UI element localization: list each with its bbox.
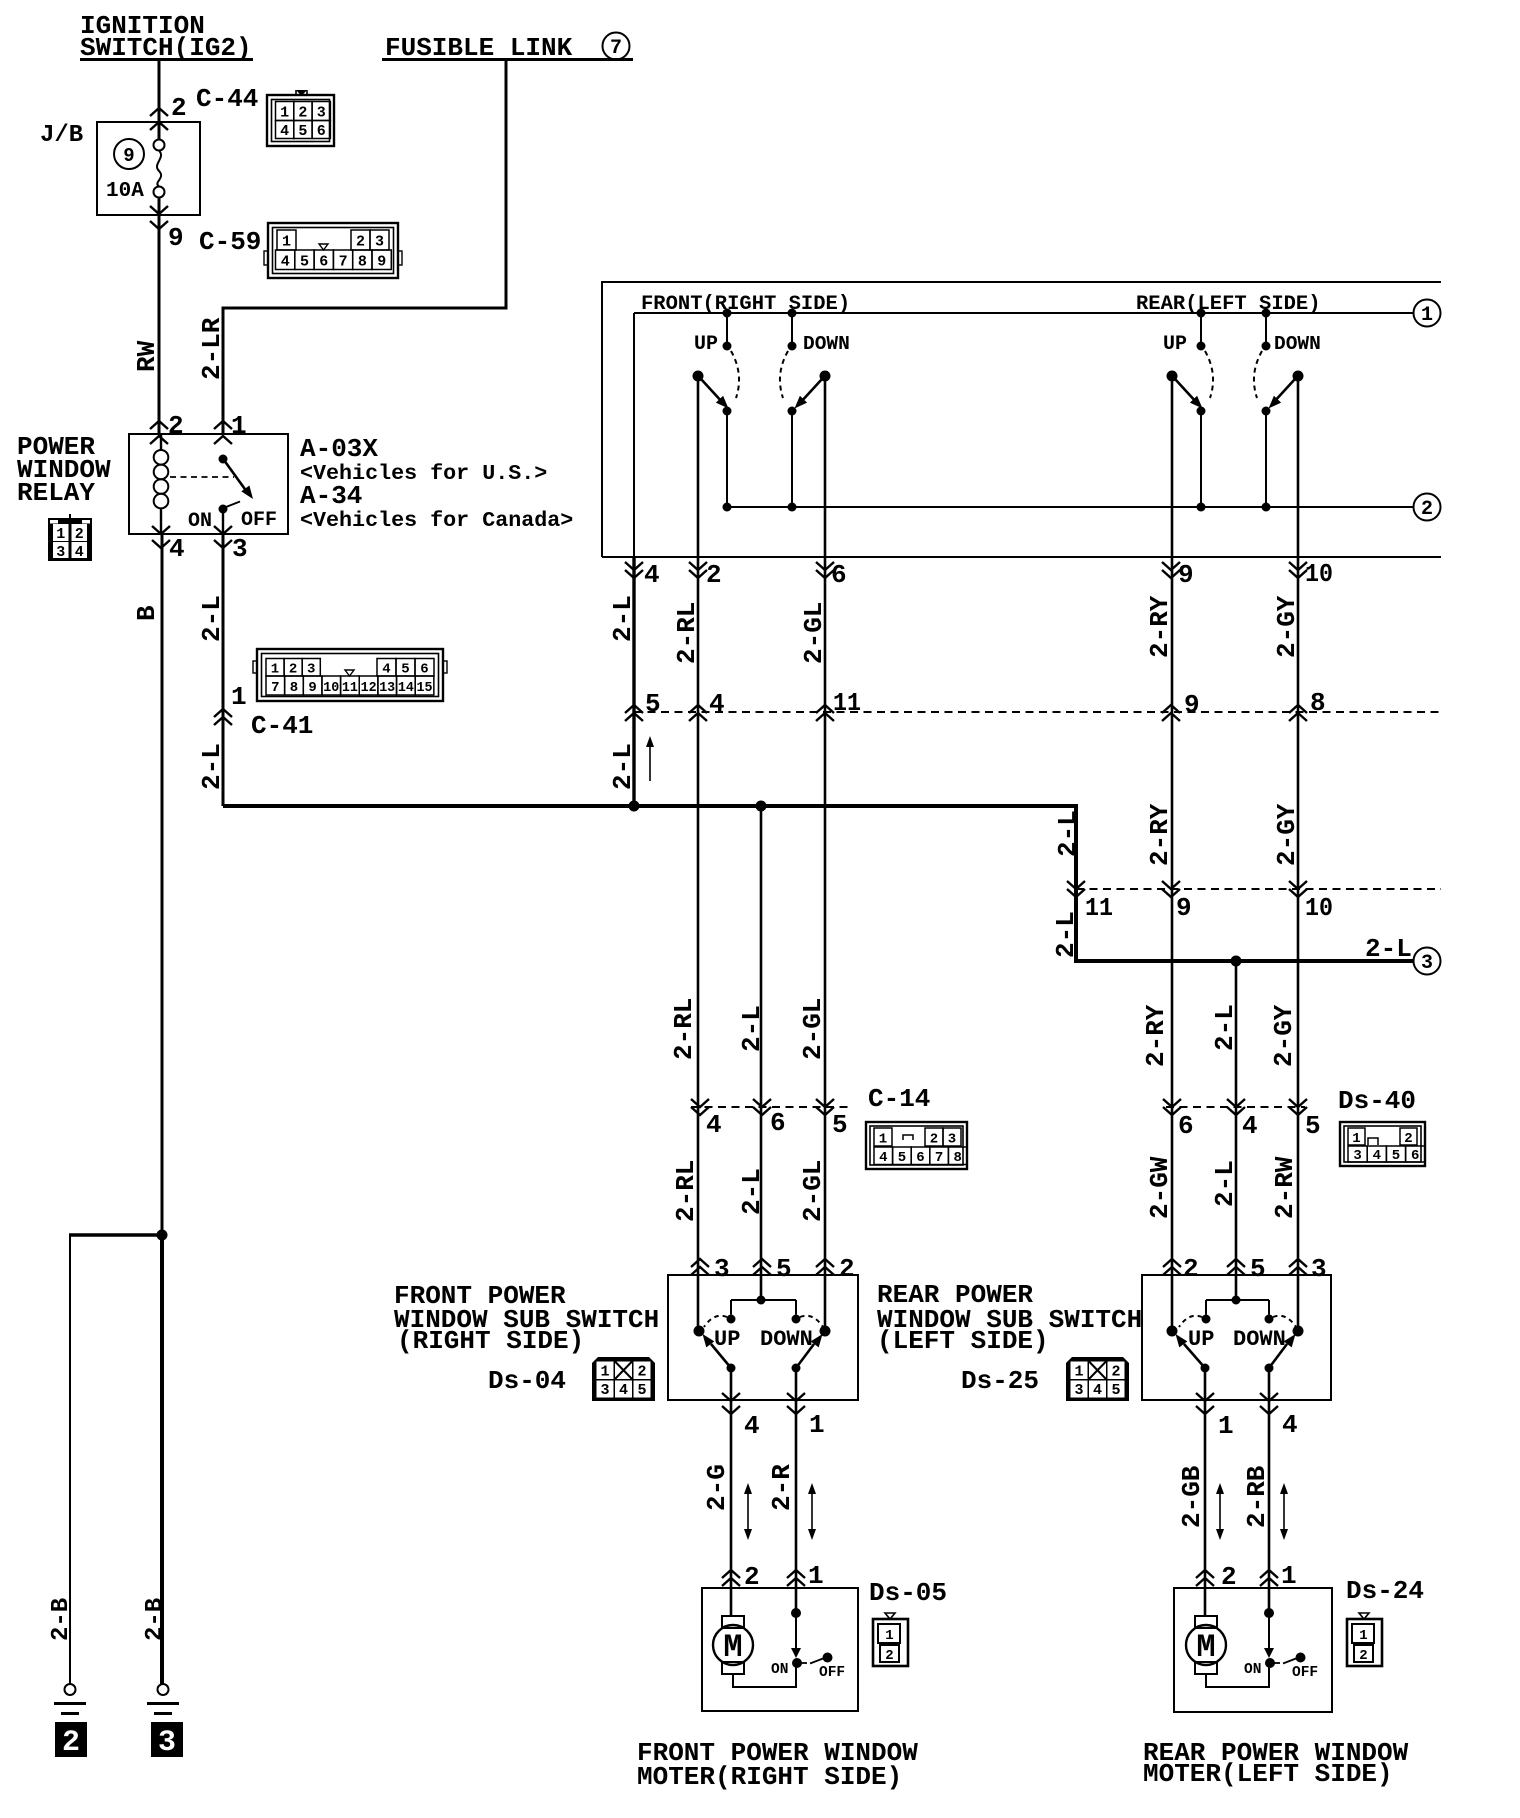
rear sub pin 1 chevron bbox=[1196, 1393, 1214, 1414]
front sub center contacts bbox=[727, 1296, 801, 1324]
rear sub pin 4 label bbox=[1282, 1410, 1298, 1440]
svg-text:9: 9 bbox=[1178, 560, 1194, 590]
wire label 2-GY lower bbox=[1269, 1004, 1299, 1067]
node circle 2 bbox=[1414, 494, 1441, 522]
wire bus line 2 bbox=[727, 506, 1413, 508]
svg-text:4: 4 bbox=[169, 534, 185, 564]
svg-text:5: 5 bbox=[776, 1254, 792, 1284]
rear motor junction bbox=[1264, 1608, 1274, 1618]
svg-text:2: 2 bbox=[1359, 1648, 1367, 1664]
dashed3 front pin 4 chevron bbox=[691, 1099, 709, 1115]
front sub pin 4 chevron bbox=[722, 1393, 740, 1414]
front sub down arm bbox=[796, 1334, 823, 1368]
wire label 2-RL lower bbox=[671, 1160, 701, 1222]
svg-text:2-GL: 2-GL bbox=[798, 1160, 828, 1222]
svg-text:1: 1 bbox=[1074, 1364, 1083, 1381]
connector C-14 label bbox=[868, 1084, 930, 1114]
svg-text:UP: UP bbox=[1188, 1327, 1214, 1352]
svg-text:12: 12 bbox=[361, 680, 377, 696]
svg-text:1: 1 bbox=[231, 682, 247, 712]
svg-text:6: 6 bbox=[770, 1108, 786, 1138]
svg-text:(LEFT SIDE): (LEFT SIDE) bbox=[877, 1326, 1049, 1356]
dashed3 rear pin 4 label bbox=[1242, 1111, 1258, 1141]
svg-text:2: 2 bbox=[289, 662, 297, 678]
rear sub UP DOWN labels bbox=[1188, 1327, 1286, 1352]
wire B to ground bbox=[161, 534, 164, 1684]
main pin 9 chevron bbox=[1162, 562, 1180, 578]
svg-text:Ds-05: Ds-05 bbox=[869, 1578, 947, 1608]
ground symbol left bbox=[54, 1684, 86, 1714]
wire label 2-RY lower bbox=[1141, 1004, 1171, 1067]
wire label B bbox=[132, 605, 162, 621]
svg-text:8: 8 bbox=[1310, 688, 1326, 718]
dashed1 pin 9 label bbox=[1184, 690, 1200, 720]
wire 2-G front sub to motor bbox=[730, 1368, 733, 1617]
rear motor pin 1 chevron bbox=[1260, 1570, 1278, 1586]
svg-text:2-L: 2-L bbox=[1051, 911, 1081, 958]
svg-text:2-B: 2-B bbox=[48, 1598, 75, 1641]
wire fuse stubs bbox=[158, 122, 161, 215]
svg-text:4: 4 bbox=[879, 1150, 887, 1166]
svg-text:RELAY: RELAY bbox=[17, 478, 95, 508]
wire 2-L relay to bus bbox=[222, 534, 225, 806]
rear motor caption bbox=[1143, 1738, 1409, 1789]
svg-text:UP: UP bbox=[1163, 333, 1187, 356]
dashed2 pin 10 chevron bbox=[1289, 881, 1307, 897]
svg-text:13: 13 bbox=[379, 680, 395, 696]
svg-text:3: 3 bbox=[714, 1254, 730, 1284]
front motor pin 2 label bbox=[744, 1562, 760, 1592]
svg-text:J/B: J/B bbox=[40, 122, 83, 149]
front motor caption bbox=[637, 1738, 918, 1792]
rear sub up dashed arc bbox=[1179, 1316, 1202, 1327]
wire label 2-G bbox=[702, 1464, 732, 1511]
main pin 4 label bbox=[644, 560, 660, 590]
rear up switch arm bbox=[1175, 379, 1203, 409]
svg-text:2-B: 2-B bbox=[142, 1598, 169, 1641]
wire pin 6 2-GL bbox=[824, 376, 827, 1331]
svg-text:C-41: C-41 bbox=[251, 711, 313, 741]
svg-text:DOWN: DOWN bbox=[1233, 1327, 1286, 1352]
connector Ds-04 label bbox=[488, 1366, 566, 1396]
ground reference 2 bbox=[55, 1722, 87, 1760]
connector Ds-25 label bbox=[961, 1366, 1039, 1396]
rear sub center contacts bbox=[1202, 1296, 1274, 1324]
pin 9 label bbox=[168, 223, 184, 253]
rear sub pin 2 chevron bbox=[1163, 1259, 1181, 1275]
svg-text:5: 5 bbox=[401, 662, 409, 678]
wire label 2-L upper bbox=[197, 595, 227, 642]
dashed1 pin 9 chevron bbox=[1162, 705, 1180, 721]
rear motor pin 1 label bbox=[1281, 1561, 1297, 1591]
svg-text:4: 4 bbox=[709, 689, 725, 719]
front down switch arm bbox=[795, 379, 823, 409]
rear up switch dashed travel arc bbox=[1205, 351, 1213, 398]
rear sub pin 4 chevron bbox=[1260, 1393, 1278, 1414]
front sub lower contacts bbox=[727, 1364, 801, 1373]
rear motor switch wire bbox=[1268, 1613, 1270, 1650]
svg-text:4: 4 bbox=[1373, 1148, 1381, 1164]
rear down lower contact to bus 2 bbox=[1262, 407, 1271, 512]
front motor switch wire bbox=[795, 1613, 797, 1650]
wire label 2-RL middle bbox=[669, 998, 699, 1060]
connector Ds-05 label bbox=[869, 1578, 947, 1608]
svg-text:2: 2 bbox=[168, 411, 184, 441]
rear down switch dashed travel arc bbox=[1254, 351, 1262, 398]
svg-text:1: 1 bbox=[282, 234, 291, 251]
rear sub up pivot bbox=[1167, 1326, 1178, 1337]
svg-text:C-14: C-14 bbox=[868, 1084, 930, 1114]
svg-text:5: 5 bbox=[1250, 1254, 1266, 1284]
rear motor pin 2 label bbox=[1221, 1562, 1237, 1592]
rear up switch pivot bbox=[1167, 371, 1178, 382]
svg-text:2-L: 2-L bbox=[197, 595, 227, 642]
svg-text:5: 5 bbox=[1392, 1148, 1400, 1164]
wire label 2-L with up arrow bbox=[608, 736, 654, 790]
node FUSIBLE LINK label bbox=[382, 33, 633, 63]
dashed3 rear pin 4 chevron bbox=[1227, 1099, 1245, 1115]
svg-text:Ds-40: Ds-40 bbox=[1338, 1086, 1416, 1116]
svg-text:15: 15 bbox=[417, 680, 433, 696]
svg-text:2-L: 2-L bbox=[608, 743, 638, 790]
front down switch pivot bbox=[820, 371, 831, 382]
svg-text:2-L: 2-L bbox=[1210, 1160, 1240, 1207]
pin 2 label bbox=[171, 93, 187, 123]
wire label 2-L at circle 3 bbox=[1365, 934, 1412, 964]
svg-text:2-GW: 2-GW bbox=[1145, 1156, 1175, 1219]
svg-text:1: 1 bbox=[600, 1364, 609, 1381]
svg-text:1: 1 bbox=[809, 1410, 825, 1440]
front up switch pivot bbox=[693, 371, 704, 382]
relay pin 3 label bbox=[232, 534, 248, 564]
front sub pin 5 chevron bbox=[753, 1259, 771, 1275]
rear up label bbox=[1163, 333, 1187, 356]
svg-text:2-RL: 2-RL bbox=[671, 1160, 701, 1222]
wire label 2-GL middle bbox=[798, 998, 828, 1060]
wire branch to ground 2 bbox=[69, 1235, 162, 1684]
connector C-44 label bbox=[196, 84, 258, 114]
relay connector icon 1 2 3 4 bbox=[48, 514, 92, 561]
svg-text:Ds-24: Ds-24 bbox=[1346, 1576, 1424, 1606]
connector Ds-40 label bbox=[1338, 1086, 1416, 1116]
junction B wire branch bbox=[157, 1230, 168, 1241]
dashed3 rear pin 6 chevron bbox=[1163, 1099, 1181, 1115]
wire 2-R front sub to motor bbox=[795, 1368, 798, 1613]
connector Ds-05 pin diagram bbox=[873, 1613, 908, 1666]
svg-text:2: 2 bbox=[356, 234, 365, 251]
svg-text:5: 5 bbox=[300, 254, 309, 271]
svg-text:OFF: OFF bbox=[241, 509, 277, 532]
svg-text:9: 9 bbox=[308, 680, 316, 696]
node circle 3 bbox=[1414, 948, 1441, 976]
svg-text:10: 10 bbox=[1305, 559, 1333, 589]
front down label bbox=[803, 333, 850, 355]
dashed1 pin 8 chevron bbox=[1289, 705, 1307, 721]
svg-text:5: 5 bbox=[832, 1110, 848, 1140]
svg-text:A-34: A-34 bbox=[300, 481, 362, 511]
front motor ON OFF labels bbox=[771, 1662, 845, 1681]
main pin 9 label bbox=[1178, 560, 1194, 590]
svg-text:2-G: 2-G bbox=[702, 1464, 732, 1511]
dashed3 rear pin 6 label bbox=[1178, 1111, 1194, 1141]
svg-text:Ds-25: Ds-25 bbox=[961, 1366, 1039, 1396]
wire RW bbox=[158, 215, 161, 434]
dashed3 front pin 4 label bbox=[706, 1110, 722, 1140]
relay pin 1 chevron bbox=[214, 421, 232, 444]
node FRONT RIGHT SIDE label bbox=[641, 293, 850, 316]
rear sub down pivot bbox=[1293, 1326, 1304, 1337]
svg-text:9: 9 bbox=[1184, 690, 1200, 720]
svg-text:OFF: OFF bbox=[1292, 1665, 1318, 1681]
wire label 2-L lower bbox=[197, 743, 227, 790]
relay pin 2 label bbox=[168, 411, 184, 441]
svg-text:ON: ON bbox=[1244, 1662, 1261, 1678]
main pin 6 chevron bbox=[816, 562, 834, 578]
relay pin 2 chevron bbox=[150, 421, 168, 444]
rear sub pin 1 label bbox=[1218, 1411, 1234, 1441]
svg-text:3: 3 bbox=[232, 534, 248, 564]
svg-text:2-RL: 2-RL bbox=[672, 602, 702, 664]
svg-text:C-44: C-44 bbox=[196, 84, 258, 114]
svg-text:OFF: OFF bbox=[819, 1665, 845, 1681]
svg-text:8: 8 bbox=[953, 1150, 961, 1166]
svg-text:2: 2 bbox=[1421, 498, 1433, 521]
rear down label bbox=[1274, 333, 1321, 355]
wire label 2-RW bbox=[1270, 1156, 1300, 1219]
node REAR LEFT SIDE label bbox=[1136, 293, 1321, 316]
svg-text:3: 3 bbox=[158, 1726, 176, 1760]
svg-text:MOTER(RIGHT SIDE): MOTER(RIGHT SIDE) bbox=[637, 1762, 902, 1792]
svg-text:3: 3 bbox=[1074, 1382, 1083, 1399]
wire label 2-RL upper bbox=[672, 602, 702, 664]
relay ON OFF labels bbox=[188, 509, 277, 533]
svg-text:14: 14 bbox=[398, 680, 414, 696]
wire pin 10 2-GY 2-RW bbox=[1297, 376, 1300, 1331]
svg-text:2-L: 2-L bbox=[1053, 810, 1083, 857]
rear motor ON OFF switch bbox=[1265, 1653, 1306, 1669]
wire ignition switch to J/B bbox=[158, 61, 161, 122]
pin 1 chevron C-41 bbox=[214, 709, 232, 725]
front sub down dashed arc bbox=[800, 1316, 823, 1327]
svg-text:1: 1 bbox=[885, 1628, 893, 1644]
front sub pin 2 label bbox=[839, 1254, 855, 1284]
svg-text:11: 11 bbox=[1085, 893, 1113, 923]
wire label 2-L pin4 bbox=[608, 595, 638, 642]
fuse number circle 9 bbox=[114, 139, 144, 169]
relay coil bbox=[154, 434, 169, 534]
svg-text:3: 3 bbox=[307, 662, 315, 678]
wire label 2-L rear branch lower bbox=[1210, 1160, 1240, 1207]
wire 2-L front branch bbox=[760, 806, 763, 1300]
svg-text:7: 7 bbox=[610, 37, 622, 60]
svg-text:7: 7 bbox=[339, 254, 348, 271]
svg-text:2: 2 bbox=[298, 105, 307, 122]
svg-text:2-LR: 2-LR bbox=[197, 317, 227, 380]
svg-text:5: 5 bbox=[637, 1382, 646, 1399]
front down lower contact to bus 2 bbox=[788, 407, 797, 512]
front up switch dashed travel arc bbox=[731, 351, 739, 398]
svg-text:8: 8 bbox=[358, 254, 367, 271]
svg-text:4: 4 bbox=[619, 1382, 628, 1399]
svg-text:3: 3 bbox=[948, 1132, 956, 1148]
main pin 2 chevron bbox=[689, 562, 707, 578]
wire label 2-GY upper bbox=[1272, 595, 1302, 658]
front motor ON OFF switch bbox=[792, 1653, 833, 1669]
front up switch fixed contact bbox=[723, 309, 732, 351]
main pin 2 label bbox=[706, 560, 722, 590]
wire pin 9 2-RY 2-GW bbox=[1171, 376, 1174, 1331]
front up label bbox=[694, 333, 718, 356]
front sub pin 1 chevron bbox=[787, 1393, 805, 1414]
dashed3 rear pin 5 label bbox=[1305, 1111, 1321, 1141]
svg-text:1: 1 bbox=[1421, 304, 1433, 327]
svg-text:10: 10 bbox=[323, 680, 339, 696]
dashed1 pin 11 chevron bbox=[816, 705, 834, 721]
wire label 2-B left bbox=[48, 1598, 75, 1641]
svg-text:4: 4 bbox=[280, 123, 289, 140]
wire label 2-L bus leg upper bbox=[1053, 810, 1083, 857]
wire 2-L rear branch bbox=[1235, 961, 1238, 1300]
svg-text:2-L: 2-L bbox=[737, 1005, 767, 1052]
ground reference 3 bbox=[151, 1722, 183, 1760]
svg-text:10A: 10A bbox=[106, 180, 144, 203]
svg-text:Ds-04: Ds-04 bbox=[488, 1366, 566, 1396]
front motor pin 1 label bbox=[808, 1561, 824, 1591]
main pin 10 chevron bbox=[1289, 562, 1307, 578]
dashed1 pin 5 chevron bbox=[625, 705, 643, 721]
rear motor pin 2 chevron bbox=[1196, 1570, 1214, 1586]
pin 2 chevron C-44 bbox=[150, 108, 168, 130]
dashed3 rear pin 5 chevron bbox=[1289, 1099, 1307, 1115]
front sub up arm bbox=[703, 1334, 732, 1368]
rear up switch fixed contact bbox=[1197, 309, 1206, 351]
connector Ds-04 pin diagram bbox=[592, 1357, 655, 1401]
svg-text:1: 1 bbox=[1218, 1411, 1234, 1441]
svg-text:1: 1 bbox=[808, 1561, 824, 1591]
rear motor return wire bbox=[1206, 1663, 1269, 1687]
svg-text:2: 2 bbox=[75, 526, 84, 543]
front sub pin 5 label bbox=[776, 1254, 792, 1284]
front power window sub switch box bbox=[668, 1275, 858, 1400]
svg-text:11: 11 bbox=[833, 688, 861, 718]
dashed2 pin 9 chevron bbox=[1162, 881, 1180, 897]
svg-text:<Vehicles for Canada>: <Vehicles for Canada> bbox=[300, 508, 573, 533]
connector C-41 label bbox=[251, 711, 313, 741]
svg-text:2-GL: 2-GL bbox=[798, 998, 828, 1060]
svg-text:2: 2 bbox=[885, 1648, 893, 1664]
front power window motor box bbox=[702, 1588, 858, 1711]
connector Ds-24 label bbox=[1346, 1576, 1424, 1606]
svg-text:9: 9 bbox=[168, 223, 184, 253]
node circle 1 bbox=[1414, 300, 1441, 328]
dashed2 pin 10 label bbox=[1305, 893, 1333, 923]
relay pin 4 label bbox=[169, 534, 185, 564]
rear sub up arm bbox=[1176, 1334, 1206, 1368]
wire label 2-RY middle bbox=[1145, 803, 1175, 866]
wire label 2-L front branch lower bbox=[737, 1168, 767, 1215]
wire 2-RB rear sub to motor bbox=[1268, 1368, 1271, 1613]
svg-text:ON: ON bbox=[771, 1662, 788, 1678]
dashed1 pin 8 label bbox=[1310, 688, 1326, 718]
svg-text:8: 8 bbox=[290, 680, 298, 696]
svg-text:2-L: 2-L bbox=[197, 743, 227, 790]
svg-text:UP: UP bbox=[714, 1327, 740, 1352]
dashed harness line 1 bbox=[634, 711, 1441, 713]
svg-text:1: 1 bbox=[1359, 1628, 1367, 1644]
svg-text:6: 6 bbox=[916, 1150, 924, 1166]
svg-text:DOWN: DOWN bbox=[1274, 333, 1321, 355]
rear power window sub switch box bbox=[1142, 1275, 1331, 1400]
svg-text:6: 6 bbox=[319, 254, 328, 271]
svg-text:1: 1 bbox=[280, 105, 289, 122]
svg-text:4: 4 bbox=[706, 1110, 722, 1140]
junction bus rear 2-L branch bbox=[1231, 956, 1242, 967]
rear sub pin 3 chevron bbox=[1289, 1259, 1307, 1275]
rear down switch arm bbox=[1269, 379, 1296, 409]
main pin 4 chevron bbox=[625, 562, 643, 578]
wire bus line 1 bbox=[634, 312, 1413, 314]
svg-text:5: 5 bbox=[298, 123, 307, 140]
svg-text:4: 4 bbox=[644, 560, 660, 590]
front motor switch arrowhead bbox=[791, 1648, 801, 1658]
svg-text:6: 6 bbox=[831, 560, 847, 590]
junction bus pin4 wire bbox=[629, 801, 640, 812]
relay switch contacts bbox=[219, 455, 254, 535]
svg-text:3: 3 bbox=[56, 544, 65, 561]
svg-text:(RIGHT SIDE): (RIGHT SIDE) bbox=[397, 1326, 584, 1356]
svg-text:2-L: 2-L bbox=[1365, 934, 1412, 964]
svg-text:2-RL: 2-RL bbox=[669, 998, 699, 1060]
dashed1 pin 4 label bbox=[709, 689, 725, 719]
wire label 2-L rear branch upper bbox=[1210, 1004, 1240, 1051]
bidirectional arrow 2-RB bbox=[1280, 1483, 1288, 1540]
svg-text:UP: UP bbox=[694, 333, 718, 356]
svg-text:RW: RW bbox=[132, 340, 162, 372]
rear sub pin 2 label bbox=[1183, 1254, 1199, 1284]
front motor pin 1 chevron bbox=[787, 1570, 805, 1586]
front motor junction bbox=[791, 1608, 801, 1618]
dashed3 front pin 5 label bbox=[832, 1110, 848, 1140]
dashed1 pin 4 chevron bbox=[689, 705, 707, 721]
bidirectional arrow 2-G bbox=[744, 1483, 752, 1540]
svg-text:2-RW: 2-RW bbox=[1270, 1156, 1300, 1219]
front motor pin 2 chevron bbox=[722, 1570, 740, 1586]
dashed harness line 3 front bbox=[691, 1106, 851, 1108]
svg-text:6: 6 bbox=[1178, 1111, 1194, 1141]
fuse 9 10A bbox=[106, 140, 165, 204]
svg-text:5: 5 bbox=[645, 689, 661, 719]
svg-text:2: 2 bbox=[637, 1364, 646, 1381]
front sub up dashed arc bbox=[704, 1316, 727, 1327]
connector Ds-40 pin diagram bbox=[1340, 1122, 1425, 1166]
wire label 2-GL upper bbox=[799, 602, 829, 664]
svg-text:3: 3 bbox=[317, 105, 326, 122]
svg-text:2-GB: 2-GB bbox=[1177, 1465, 1207, 1528]
svg-text:2: 2 bbox=[839, 1254, 855, 1284]
svg-text:5: 5 bbox=[898, 1150, 906, 1166]
bidirectional arrow 2-GB bbox=[1216, 1483, 1224, 1540]
relay pin 3 chevron bbox=[214, 526, 232, 548]
svg-text:DOWN: DOWN bbox=[803, 333, 850, 355]
wire label 2-LR bbox=[197, 317, 227, 380]
pin 9 chevron C-59 bbox=[150, 206, 168, 229]
wire label 2-RB bbox=[1242, 1465, 1272, 1528]
rear up lower contact to bus 2 bbox=[1197, 407, 1206, 512]
rear sub down arm bbox=[1269, 1334, 1296, 1368]
motor M front bbox=[713, 1616, 753, 1674]
svg-text:3: 3 bbox=[600, 1382, 609, 1399]
connector C-59 label bbox=[199, 227, 261, 257]
